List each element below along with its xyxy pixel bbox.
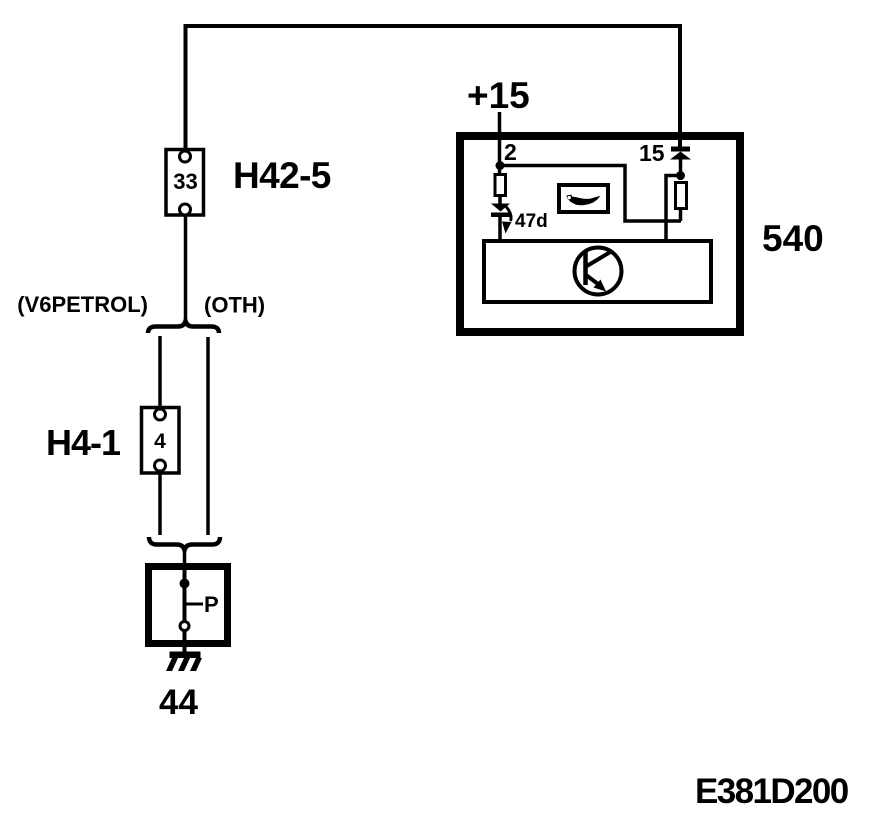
ground symbol	[166, 652, 202, 672]
svg-text:P: P	[204, 592, 219, 617]
wire fuse 33 to branch brace	[184, 215, 188, 319]
svg-text:44: 44	[159, 683, 198, 722]
wire V6PETROL branch upper	[158, 336, 162, 407]
diode at 47d	[491, 204, 510, 218]
svg-text:4: 4	[154, 430, 166, 453]
branch brace top	[148, 321, 219, 333]
connector 44 box	[149, 567, 228, 644]
oil can icon	[567, 195, 601, 206]
diode at pin 15	[670, 147, 691, 160]
svg-text:(OTH): (OTH)	[204, 293, 265, 318]
wire top run from fuse 33 to pin 15 of unit 540	[186, 26, 681, 150]
wire resistor right bottom stub	[679, 209, 683, 222]
wire diode 15 to junction	[679, 158, 683, 180]
transistor emitter with arrow	[586, 275, 600, 286]
wire brace to connector 44	[183, 549, 187, 566]
fuse H4-1 bottom terminal	[155, 460, 166, 471]
wire +15 to unit 540 pin 2	[498, 112, 502, 175]
merge brace bottom	[149, 537, 220, 550]
svg-text:15: 15	[639, 140, 665, 166]
unit 540 outer box	[460, 136, 740, 332]
wire V6PETROL branch lower	[158, 473, 162, 535]
svg-text:2: 2	[504, 139, 517, 165]
wire inside connector 44	[183, 567, 187, 652]
junction dot pin 15 branch	[676, 171, 685, 180]
svg-text:H4-1: H4-1	[46, 422, 121, 463]
pin tick to label P	[186, 603, 203, 606]
fuse H42-5 top terminal	[180, 151, 191, 162]
svg-text:(V6PETROL): (V6PETROL)	[17, 292, 148, 317]
junction dot pin 2	[496, 161, 505, 170]
wire resistor to diode 47d	[498, 196, 502, 206]
transistor circle	[575, 248, 622, 295]
svg-text:540: 540	[762, 218, 824, 259]
arrow mark 47d	[506, 206, 511, 221]
transistor base bar	[583, 250, 588, 285]
resistor right	[676, 183, 687, 209]
resistor left	[495, 175, 506, 196]
transistor collector	[586, 251, 612, 267]
fuse H4-1 body	[142, 408, 180, 474]
svg-text:+15: +15	[467, 75, 530, 116]
amplifier inner box	[484, 241, 711, 302]
wire junction to amplifier box	[666, 176, 680, 242]
terminal circle in connector 44	[180, 622, 189, 631]
svg-text:47d: 47d	[515, 211, 548, 232]
fuse H42-5 body	[166, 150, 204, 216]
wire diode to amplifier box	[498, 216, 502, 241]
svg-text:E381D200: E381D200	[695, 772, 849, 811]
wire elbow from pin 2 node to right resistor bottom	[503, 166, 681, 222]
svg-text:33: 33	[173, 169, 197, 194]
wire OTH branch	[206, 337, 210, 535]
fuse H42-5 bottom terminal	[180, 204, 191, 215]
junction dot in connector 44	[180, 579, 190, 589]
warning lamp box	[559, 185, 608, 212]
svg-text:H42-5: H42-5	[233, 155, 331, 196]
fuse H4-1 top terminal	[155, 409, 166, 420]
